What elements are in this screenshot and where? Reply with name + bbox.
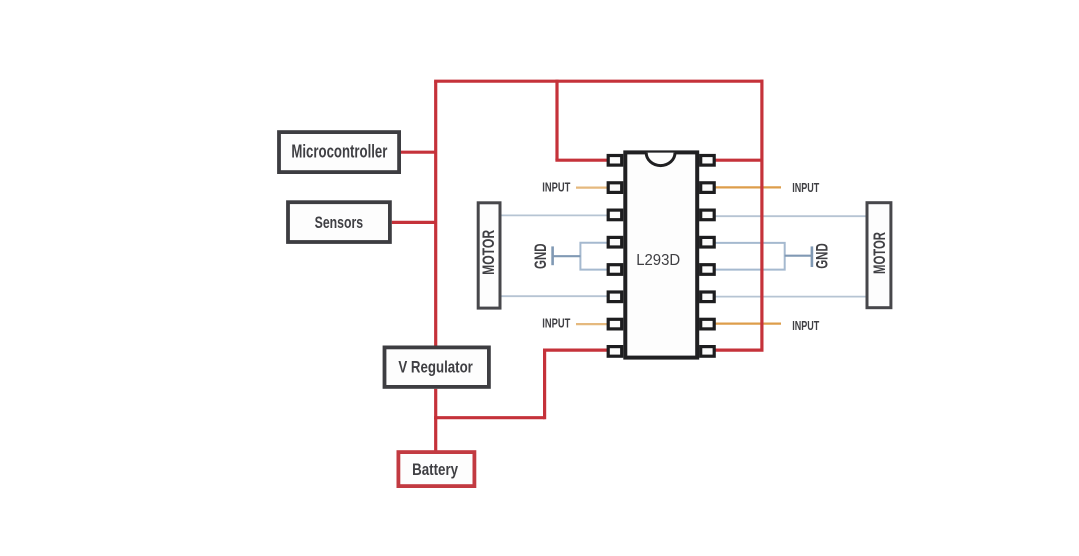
IC notch [646,153,675,166]
pin 10 (right) [701,319,715,329]
wire: red top supply horizontal [434,80,763,83]
svg-text:MOTOR: MOTOR [870,232,889,274]
svg-text:L293D: L293D [636,252,680,269]
pin 2 (left) [608,183,622,193]
wire: motor-left to pin 3 (blue) [502,214,611,216]
wire: right GND stem [785,255,812,257]
wire: left GND bracket to pins 4 and 5 (blue) [580,243,610,270]
wire: pin 3 right to motor-right (blue) [712,215,866,217]
wire: red connector to pin 1 left [555,159,610,162]
svg-text:INPUT: INPUT [542,317,570,331]
pin 12 (right) [701,265,715,275]
pin 1 (left) [608,156,622,166]
wire: red riser to pin 8 left [543,350,546,419]
wire: pin 7 right INPUT lead (orange) [712,323,781,325]
svg-text:MOTOR: MOTOR [479,230,498,275]
pin 4 (left) [608,237,622,247]
pin 7 (left) [608,319,622,329]
block: Microcontroller [279,132,399,172]
wire: V Regulator bottom vertical [434,389,437,420]
svg-text:Microcontroller: Microcontroller [291,142,387,162]
svg-text:GND: GND [813,243,831,269]
wire: red connector to pin 8 left [543,349,610,352]
pin 16 (right) [701,156,715,166]
pin 9 (right) [701,347,715,357]
wire: red connector pin 1 right [712,159,762,162]
svg-text:GND: GND [532,243,550,269]
block: right MOTOR [867,203,891,308]
op-amp/IC U1 body L293D [625,152,697,357]
pin 5 (left) [608,265,622,275]
wire: red mid vertical to pin 1 [555,80,558,161]
wire: left INPUT lead to pin 2 (orange) [576,187,610,189]
ground: left GND bar [551,246,554,265]
wire: junction to Battery [434,418,437,451]
ground: right GND bar [811,246,814,267]
wire: red right vertical along IC [760,80,763,351]
pin 15 (right) [701,183,715,193]
wire: red connector pin 8 right [712,349,764,352]
svg-text:V Regulator: V Regulator [398,358,473,377]
svg-text:INPUT: INPUT [792,181,819,195]
wire: left INPUT lead to pin 7 (orange) [576,323,610,325]
wire: Microcontroller to supply rail [401,151,436,154]
block: Battery [398,452,474,486]
block: left MOTOR [478,203,500,308]
svg-text:INPUT: INPUT [542,181,570,195]
wire: red left supply vertical [434,81,437,345]
wire: left GND stem [553,255,581,257]
wire: pin 6 right to motor-right (blue) [712,296,866,298]
block: Sensors [288,202,390,242]
svg-text:Battery: Battery [412,460,458,479]
wire: red bottom horizontal [434,416,544,419]
pin 13 (right) [701,237,715,247]
pin 11 (right) [701,292,715,302]
pin 8 (left) [608,347,622,357]
wire: motor-left to pin 6 (blue) [502,295,611,297]
block: V Regulator [385,347,489,387]
wire: right GND bracket to pins 4 and 5 (blue) [712,243,785,270]
pin 14 (right) [701,210,715,220]
wire: Sensors to supply rail [392,221,436,224]
pin 3 (left) [608,210,622,220]
pin 6 (left) [608,292,622,302]
svg-text:INPUT: INPUT [792,319,819,333]
svg-text:Sensors: Sensors [315,213,364,232]
wire: pin 2 right INPUT lead (orange) [712,186,781,188]
